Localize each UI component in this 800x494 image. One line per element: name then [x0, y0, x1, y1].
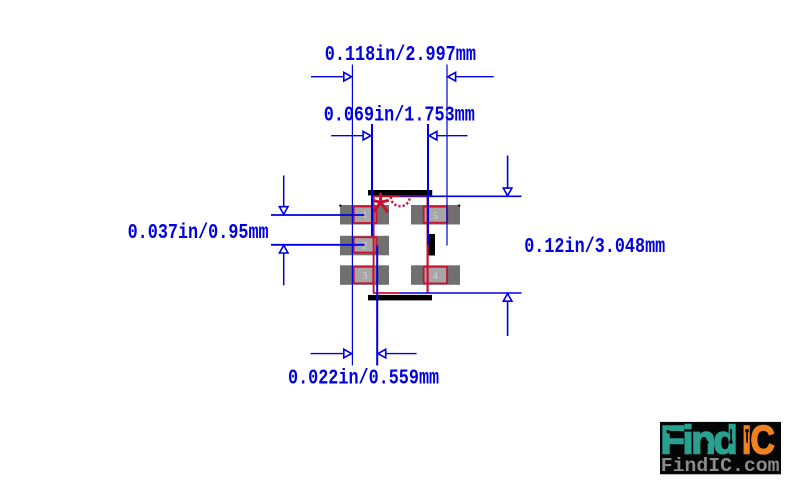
- dim line 2.997 left arrow shaft: [311, 76, 345, 78]
- ext line 2.997 left: [351, 65, 353, 366]
- pad 1 corner dot: [339, 205, 341, 207]
- dim line 1.753 right arrow shaft: [436, 135, 468, 137]
- blue geometry: [271, 65, 522, 366]
- arrowhead 1.753 left: [363, 131, 371, 140]
- pad 3 land: [340, 265, 389, 285]
- svg-text:1: 1: [362, 210, 367, 221]
- pad 2 inner: [355, 238, 376, 253]
- svg-text:0.022in/0.559mm: 0.022in/0.559mm: [288, 366, 439, 390]
- pin1 marker asterisk: [374, 194, 388, 211]
- body outline top edge purple overlap: [400, 195, 428, 197]
- pin4/5 gap black rect: [429, 234, 435, 256]
- pad 4 inner: [425, 268, 447, 283]
- svg-text:0.118in/2.997mm: 0.118in/2.997mm: [325, 42, 476, 66]
- pad 2 outline: [354, 237, 377, 252]
- pad 4 outline: [424, 267, 448, 284]
- dim line 0.95 upper: [271, 214, 365, 216]
- pin1 orientation arc: [391, 197, 410, 207]
- svg-text:0.037in/0.95mm: 0.037in/0.95mm: [128, 220, 269, 244]
- arrowhead 0.95 down: [279, 207, 288, 215]
- svg-text:2: 2: [362, 241, 367, 252]
- pad 1 outline: [354, 207, 377, 224]
- svg-text:0.069in/1.753mm: 0.069in/1.753mm: [324, 103, 475, 127]
- pad 2 land: [340, 236, 389, 256]
- dim line 3.048 lower: [400, 292, 522, 294]
- arrowhead 3.048 up: [503, 294, 512, 302]
- dim leader 0.95 vertical bottom: [283, 253, 285, 285]
- dim line 1.753 left arrow shaft: [331, 135, 363, 137]
- logo circuit dots: [667, 429, 766, 453]
- ext line 1.753 right: [427, 124, 429, 245]
- pad 5 land: [411, 205, 460, 225]
- pad 1 inner: [355, 207, 376, 223]
- svg-text:3: 3: [362, 271, 367, 282]
- dim leader 3.048 vertical bottom: [507, 301, 509, 336]
- body outline bottom edge red: [373, 292, 400, 294]
- dim line 0.559 left arrow shaft: [311, 353, 344, 355]
- dim line 0.95 lower: [271, 244, 365, 246]
- body outline right edge: [427, 196, 429, 293]
- pad 3 outline: [354, 267, 374, 284]
- dim line 0.559 right arrow shaft: [386, 353, 417, 355]
- FindIC logo: [660, 418, 781, 477]
- arrowhead 2.997 left: [344, 72, 352, 81]
- svg-text:FindIC.com: FindIC.com: [661, 455, 780, 477]
- svg-text:5: 5: [433, 211, 438, 222]
- dim line 3.048 upper: [428, 195, 522, 197]
- pad 5 inner: [425, 208, 447, 223]
- arrowhead 2.997 right: [448, 72, 456, 81]
- body outline top edge red: [372, 195, 400, 197]
- pad 3 inner: [355, 268, 376, 283]
- ext line 2.997 right: [446, 65, 448, 246]
- dim leader 0.95 vertical top: [283, 176, 285, 208]
- dim line 2.997 right arrow shaft: [455, 76, 494, 78]
- arrowhead 3.048 down: [503, 188, 512, 196]
- arrowhead 0.559 left: [344, 349, 352, 358]
- logo background: [660, 422, 781, 474]
- dim leader 3.048 vertical top: [507, 156, 509, 189]
- body outline left edge: [373, 196, 375, 293]
- pad 5 corner dot: [458, 205, 460, 207]
- ext line 0.559 right: [376, 246, 378, 366]
- arrowhead 0.95 up: [279, 245, 288, 253]
- pad 1 land: [340, 205, 389, 225]
- arrowhead 1.753 right: [429, 131, 437, 140]
- svg-text:0.12in/3.048mm: 0.12in/3.048mm: [524, 235, 665, 259]
- arrowheads: [279, 72, 512, 358]
- package top bar: [368, 190, 432, 195]
- pad 4 land: [411, 265, 460, 285]
- ext line 1.753 left: [371, 124, 373, 236]
- svg-text:4: 4: [433, 271, 439, 282]
- pad 5 outline: [424, 207, 448, 223]
- package bottom bar: [368, 295, 432, 301]
- arrowhead 0.559 right: [378, 349, 386, 358]
